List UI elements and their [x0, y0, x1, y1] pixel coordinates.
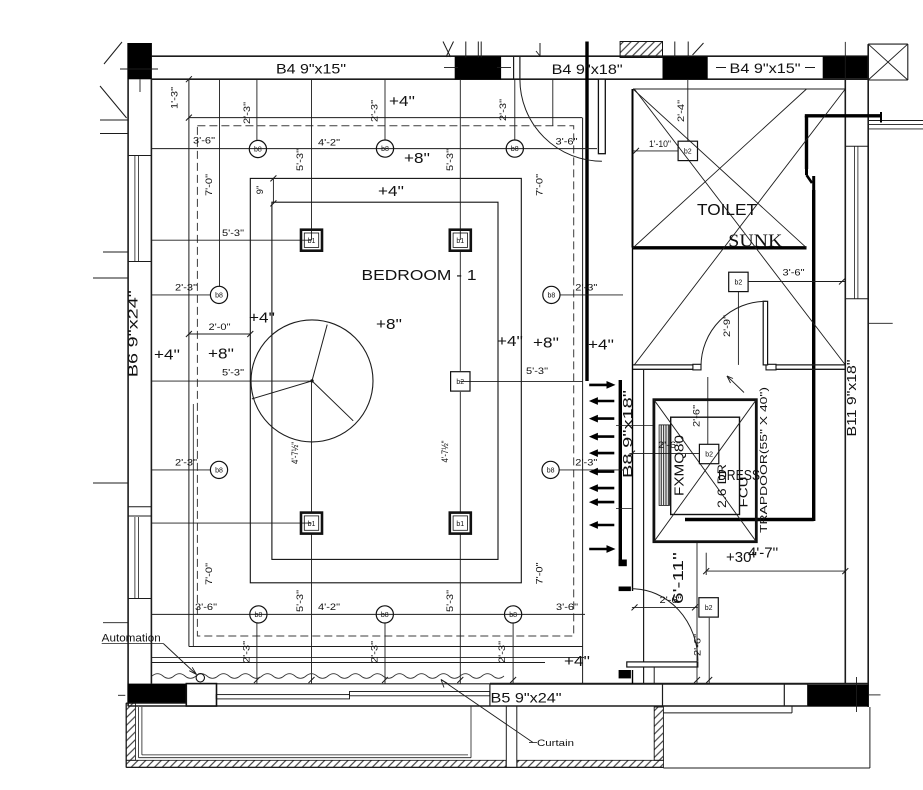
wire sunk top horiz: [805, 114, 881, 117]
wire dim v sq col1 a: [311, 79, 313, 240]
lamp L8-5: [543, 286, 560, 303]
wire window sill: [845, 298, 868, 300]
wire break mark diag2: [443, 42, 451, 58]
arrow airflow 6: [589, 468, 614, 476]
wire dim v x219.5: [219, 79, 221, 286]
wire dim h 2-6 door: [632, 606, 698, 608]
lamp b1-3: [301, 513, 322, 534]
wire window divider: [128, 506, 151, 508]
svg-text:3'-6": 3'-6": [556, 602, 578, 613]
svg-text:2'-3": 2'-3": [175, 282, 197, 293]
svg-text:+8'': +8'': [404, 150, 430, 167]
hatch block top: [620, 42, 662, 58]
svg-text:2'-3": 2'-3": [242, 102, 253, 124]
unit FXMQ80 outer: [654, 400, 756, 542]
wire dim h circleR2: [559, 469, 623, 471]
wire grid tick C6: [856, 677, 858, 712]
wire automation leader: [163, 644, 196, 675]
wire window divider: [128, 515, 151, 517]
wire curtain leader: [441, 680, 533, 743]
wire toilet bottom wall a: [633, 364, 701, 366]
svg-text:b8: b8: [381, 612, 389, 619]
wire left tick: [103, 251, 128, 253]
svg-text:2'-0": 2'-0": [209, 322, 231, 333]
svg-text:+4'': +4'': [154, 347, 180, 364]
wire thick wall line lower: [619, 380, 622, 566]
svg-text:+8'': +8'': [376, 316, 402, 333]
window left upper pane1: [134, 156, 136, 261]
wire dress door arc: [632, 589, 698, 661]
svg-text:2'-6": 2'-6": [658, 440, 680, 451]
svg-text:7'-0": 7'-0": [535, 563, 546, 585]
column C2: [455, 56, 501, 79]
wire break mark diag1: [446, 42, 454, 58]
svg-text:5'-3": 5'-3": [222, 368, 244, 379]
wire dim 2-0: [189, 333, 250, 335]
wire label dash: [716, 67, 726, 69]
lamp L8-6: [210, 461, 227, 478]
wire grid line col4: [844, 42, 846, 89]
arrow airflow 4: [589, 433, 614, 441]
wire dim v dress sq1: [707, 377, 709, 444]
wall jamb black1: [619, 560, 627, 567]
wall B8 upper: [632, 89, 634, 248]
wire dim h sq top: [151, 239, 311, 241]
wire right bay bottom: [663, 767, 870, 769]
lamp b2-4: [699, 598, 718, 617]
wire dim h sq mid right: [460, 380, 583, 382]
svg-text:7'-0": 7'-0": [204, 174, 215, 196]
node C5 white box: [186, 684, 216, 706]
wire window sill: [845, 145, 868, 147]
node toilet door leaf: [763, 301, 767, 365]
wire dim v circle t2: [384, 79, 386, 140]
rect ceiling B: [272, 202, 498, 559]
svg-text:B11 9"x18": B11 9"x18": [844, 359, 859, 436]
svg-text:4'-7½": 4'-7½": [440, 441, 451, 463]
column C1 top-left: [128, 43, 152, 79]
wire bedroom east line: [582, 118, 584, 684]
svg-text:4'-2": 4'-2": [318, 138, 340, 149]
wall left inner: [150, 79, 152, 683]
node automation circle: [196, 674, 204, 682]
wire sunk hook c: [812, 176, 815, 190]
svg-text:+4'': +4'': [564, 653, 590, 670]
node track band1: [216, 695, 349, 699]
svg-text:2'-3": 2'-3": [370, 641, 381, 663]
wire dim v sq col2 a: [459, 79, 461, 240]
wire toilet bottom wall b: [633, 368, 701, 370]
wire beam divider: [662, 684, 664, 706]
svg-text:2'-3": 2'-3": [175, 457, 197, 468]
wire window divider: [128, 598, 151, 600]
svg-text:7'-0": 7'-0": [535, 174, 546, 196]
svg-text:2'-9": 2'-9": [722, 315, 733, 337]
svg-text:+4'': +4'': [378, 183, 404, 200]
svg-text:b1: b1: [456, 238, 464, 245]
wire dim h 1-10: [633, 150, 678, 152]
wire ceiling ring left: [188, 79, 190, 646]
window right pane1: [854, 147, 856, 299]
wire dim v sq col2 c: [459, 392, 461, 512]
wire sunk hook b: [807, 175, 813, 183]
svg-text:1'-10": 1'-10": [649, 139, 671, 150]
wire dim v circle t1: [256, 79, 258, 140]
wire top beam inner line: [152, 78, 869, 80]
wire grid tick: [477, 42, 479, 58]
svg-text:4'-7½": 4'-7½": [290, 442, 301, 464]
lamp L8-2: [376, 140, 393, 157]
window right pane2: [857, 147, 859, 299]
svg-text:TOILET: TOILET: [697, 202, 757, 219]
hatch balcony bottom strip L: [126, 760, 506, 767]
wire door jamb line1: [513, 56, 515, 79]
svg-text:B4 9"x15": B4 9"x15": [730, 61, 801, 76]
wire right margin line1: [868, 120, 923, 122]
wire beam divider: [783, 684, 785, 706]
wire corner box right: [907, 44, 909, 80]
wire left tick: [103, 622, 128, 624]
fan circle: [251, 320, 373, 442]
rect ceiling A: [250, 178, 521, 582]
wire corner diag1: [868, 44, 908, 80]
column C5 bottom-left: [128, 684, 187, 704]
unit FXMQ80 inner: [671, 417, 740, 514]
wire door swing arc top: [520, 79, 602, 161]
wire ceiling ring top: [189, 117, 582, 119]
svg-text:2'-3": 2'-3": [575, 282, 597, 293]
wire dim h 3-6 toilet: [748, 281, 845, 283]
wire right margin line3: [868, 128, 923, 130]
wall B8 lower: [632, 248, 634, 592]
arrow airflow 5: [589, 449, 614, 457]
wire balcony inner1: [138, 707, 140, 758]
wire left tick: [93, 277, 128, 279]
wire dim h circleL1: [151, 294, 210, 296]
lamp L8-3: [506, 140, 523, 157]
svg-text:B5 9"x24": B5 9"x24": [491, 691, 562, 706]
lamp b2-2: [729, 272, 748, 291]
node dress door leaf: [627, 662, 698, 667]
wire corner diag2: [868, 44, 908, 80]
arrow airflow 8: [589, 498, 614, 506]
lamp L8-9: [376, 606, 393, 623]
svg-text:b2: b2: [456, 379, 464, 386]
arrow airflow 10: [589, 545, 615, 553]
wire grid tick C5: [118, 694, 125, 696]
arrow airflow 9: [589, 521, 614, 529]
arrow airflow 7: [589, 484, 614, 492]
svg-text:2'-3": 2'-3": [370, 100, 381, 122]
svg-text:b8: b8: [255, 612, 263, 619]
wire trapdoor leader: [727, 376, 744, 393]
svg-text:3'-6": 3'-6": [556, 137, 578, 148]
wire right bay right: [869, 707, 871, 768]
svg-text:5'-3": 5'-3": [445, 590, 456, 612]
wire dim v sq col1 c: [311, 534, 313, 684]
wire grid tick: [465, 42, 467, 58]
wire dim h chain top: [151, 148, 597, 150]
wire toilet door arc: [701, 301, 766, 366]
svg-text:3'-6": 3'-6": [783, 268, 805, 279]
wire sunk right vert upper: [805, 116, 808, 169]
wire sunk hook a: [805, 169, 808, 175]
fan blade3: [312, 381, 353, 421]
wire door jamb line2: [519, 56, 521, 79]
hatch balcony left band: [126, 703, 135, 760]
wire balcony divider: [505, 706, 507, 767]
svg-text:b1: b1: [456, 521, 464, 528]
svg-text:FCU: FCU: [737, 477, 751, 508]
unit FXMQ80 diag1: [654, 400, 756, 542]
fan hub: [310, 379, 313, 382]
wire grid tick: [674, 42, 676, 58]
svg-text:b8: b8: [381, 146, 389, 153]
wire dim v x552.8: [552, 79, 554, 126]
svg-text:b8: b8: [215, 468, 223, 475]
wire dim v circle t3: [514, 79, 516, 140]
svg-text:2'-6": 2'-6": [692, 634, 703, 656]
wire tick below C1: [139, 79, 141, 92]
wire ceiling ring bottom: [189, 646, 583, 648]
svg-text:3'-6": 3'-6": [195, 602, 217, 613]
wire sunk X diag1: [633, 89, 807, 248]
wire dim v sq col1 b: [311, 381, 313, 512]
wire beam B5 left end: [489, 684, 491, 706]
svg-text:SUNK: SUNK: [728, 231, 782, 251]
wire grid tick: [687, 42, 689, 58]
svg-text:b1: b1: [308, 238, 316, 245]
column C4 top-right: [823, 56, 868, 78]
wire beam B5 bottom line: [128, 705, 869, 707]
wire left tick: [93, 482, 128, 484]
svg-text:5'-3": 5'-3": [526, 366, 548, 377]
wire dim v 6-11: [696, 542, 698, 684]
wall jamb black3: [619, 670, 631, 678]
svg-text:+4'': +4'': [249, 310, 275, 327]
wire balcony divider x471: [470, 706, 472, 758]
svg-text:2.6 DR: 2.6 DR: [715, 464, 729, 508]
wire sunk top end tick: [880, 112, 882, 123]
node toilet door jambR: [766, 364, 776, 370]
hatch balcony bottom strip R: [517, 760, 664, 767]
wire left tick pair1: [100, 119, 128, 121]
svg-text:B4 9"x15": B4 9"x15": [276, 62, 346, 77]
wire corner box top: [868, 43, 908, 45]
wire ceiling dashed rect: [197, 126, 573, 636]
svg-text:b8: b8: [254, 147, 262, 154]
svg-text:1'-3": 1'-3": [170, 87, 181, 109]
wire ext tick y425: [616, 425, 654, 427]
wire beam divider: [807, 684, 809, 706]
wire toilet top inner wall line: [633, 88, 845, 90]
svg-text:2'-6": 2'-6": [660, 595, 682, 606]
wire diag TL1: [104, 42, 122, 64]
svg-text:2'-6": 2'-6": [692, 405, 703, 427]
lamp L8-10: [504, 606, 521, 623]
wire dim h 30 4-7: [706, 570, 845, 572]
svg-text:9": 9": [255, 186, 266, 195]
node door leaf top: [598, 79, 605, 154]
fan blade2: [252, 381, 312, 399]
svg-text:B6 9"x24": B6 9"x24": [126, 290, 141, 377]
svg-text:B4 9"x18": B4 9"x18": [552, 62, 623, 77]
wire curtain head line1: [151, 656, 584, 658]
svg-text:5'-3": 5'-3": [445, 149, 456, 171]
wire dim v sq col2 d: [459, 534, 461, 684]
wire sunk X diag2: [633, 89, 807, 248]
svg-text:b2: b2: [735, 280, 743, 287]
wire dim v toilet sq1: [687, 79, 689, 141]
fan blade1: [312, 325, 327, 381]
svg-text:Automation: Automation: [102, 633, 161, 645]
wire top beam outer line: [152, 55, 869, 57]
svg-text:5'-3": 5'-3": [295, 590, 306, 612]
wall jamb black2: [619, 587, 631, 592]
wire sunk right vert lower: [812, 190, 815, 521]
wire dim h chain bottom: [151, 613, 585, 615]
lamp b2-5: [451, 372, 470, 391]
wire dim v circle b3: [512, 623, 514, 684]
lamp b2-3: [699, 444, 718, 463]
svg-text:4'-7'': 4'-7'': [748, 545, 778, 562]
wire tick through C1: [120, 68, 158, 70]
lamp L8-4: [210, 286, 227, 303]
lamp L8-8: [250, 606, 267, 623]
wire grid tick: [480, 42, 482, 58]
wire balcony divider: [516, 706, 518, 767]
svg-text:+8'': +8'': [533, 335, 559, 352]
wire dim h circleR1: [560, 294, 623, 296]
wire dim v x188.9 arrow: [186, 115, 192, 121]
wire ext tick y508: [616, 507, 632, 509]
wire right margin line2: [868, 124, 923, 126]
wire dim v door sq: [708, 618, 710, 684]
wire bedroom bottom wall line: [217, 683, 490, 685]
svg-text:b8: b8: [215, 293, 223, 300]
wire grid tick col2: [444, 67, 458, 69]
wire divider wall above beam: [653, 667, 655, 684]
svg-text:b8: b8: [548, 293, 556, 300]
wire toilet X diag1: [634, 89, 845, 365]
wire dim h 2-6 dress: [629, 453, 699, 455]
svg-text:5'-3": 5'-3": [222, 228, 244, 239]
svg-text:BEDROOM - 1: BEDROOM - 1: [362, 267, 477, 284]
svg-text:+4'': +4'': [389, 93, 415, 110]
node toilet door jambL: [693, 364, 701, 370]
wire right bay step: [663, 712, 792, 714]
svg-text:2'-3": 2'-3": [242, 641, 253, 663]
svg-text:3'-6": 3'-6": [193, 136, 215, 147]
wire grid tick C6 horiz: [868, 694, 880, 696]
svg-text:+8'': +8'': [208, 346, 234, 363]
wire grid diag tick: [693, 43, 704, 55]
wire dim v sq col2 b: [459, 251, 461, 371]
unit FXMQ80 diag2: [654, 400, 756, 542]
svg-text:+4'': +4'': [588, 337, 614, 354]
arrow airflow 3: [589, 415, 614, 423]
svg-text:7'-0": 7'-0": [204, 563, 215, 585]
wire right margin tick: [868, 322, 893, 324]
lamp b1-4: [450, 513, 471, 534]
wire balcony bottom edge: [126, 766, 663, 768]
lamp b2-1: [678, 141, 697, 160]
unit FXMQ80 coil: [659, 425, 669, 506]
column C3: [663, 56, 708, 79]
wire dress west inner: [643, 369, 645, 684]
svg-text:b2: b2: [705, 452, 713, 459]
wire dim h circleL2: [151, 469, 210, 471]
wire dim 9in: [272, 178, 274, 203]
wall right inner: [844, 80, 846, 684]
wire thick wall line upper: [585, 42, 588, 382]
wire ceiling ring extra: [192, 404, 194, 647]
wire diag TL2: [100, 86, 127, 118]
window left lower pane1: [134, 517, 136, 598]
wall right outer: [867, 44, 869, 707]
svg-text:4'-2": 4'-2": [318, 602, 340, 613]
svg-text:Curtain: Curtain: [537, 738, 574, 749]
window left lower pane2: [137, 517, 139, 598]
svg-text:b1: b1: [308, 521, 316, 528]
wire balcony inner2: [141, 707, 143, 755]
lamp b1-1: [301, 230, 322, 251]
svg-text:b2: b2: [684, 149, 692, 156]
wire dim v circle b2: [384, 623, 386, 684]
wire dim v circle b1: [256, 623, 258, 684]
svg-text:+4'': +4'': [497, 333, 523, 350]
hatch divider wall band: [654, 707, 663, 760]
wire dim h fan: [151, 380, 312, 382]
svg-text:b8: b8: [511, 146, 519, 153]
wire col C5 bottom line: [126, 702, 188, 704]
wire window divider: [128, 155, 151, 157]
svg-text:2'-3": 2'-3": [497, 641, 508, 663]
lamp L8-7: [542, 461, 559, 478]
wall B8 below door: [632, 670, 634, 684]
svg-text:TRAPDOOR(55" X 40"): TRAPDOOR(55" X 40"): [759, 387, 770, 533]
wire dim v toilet sq2: [737, 292, 739, 365]
svg-text:B8 9"x18": B8 9"x18": [620, 389, 635, 478]
wall left outer: [127, 43, 129, 706]
arrow airflow 1: [589, 381, 615, 389]
window left upper pane2: [137, 156, 139, 261]
wire corner box bottom: [868, 79, 908, 81]
svg-text:2'-3": 2'-3": [575, 457, 597, 468]
wire dim tick v x706: [705, 553, 707, 575]
node track band2: [350, 692, 490, 696]
wire left tick pair2: [100, 133, 128, 135]
wire grid tick arrow: [539, 43, 541, 56]
arrow airflow 2: [589, 397, 614, 405]
wire sunk toilet bottom: [633, 246, 807, 249]
wire toilet X diag2: [634, 89, 845, 365]
wire window divider: [128, 261, 151, 263]
wire beam B5 top line: [490, 683, 868, 685]
wire curtain head line2: [151, 662, 545, 664]
svg-text:5'-3": 5'-3": [295, 149, 306, 171]
svg-text:b2: b2: [705, 605, 713, 612]
wall balcony left outer: [125, 703, 127, 767]
lamp b1-2: [450, 230, 471, 251]
svg-text:b8: b8: [509, 612, 517, 619]
wire dim 1-3 top arrow: [186, 76, 192, 82]
svg-text:b8: b8: [547, 468, 555, 475]
svg-text:2'-4": 2'-4": [676, 100, 687, 122]
wire sunk dress bottom: [685, 518, 814, 521]
curtain wavy line: [152, 674, 504, 679]
svg-text:2'-3": 2'-3": [498, 99, 509, 121]
